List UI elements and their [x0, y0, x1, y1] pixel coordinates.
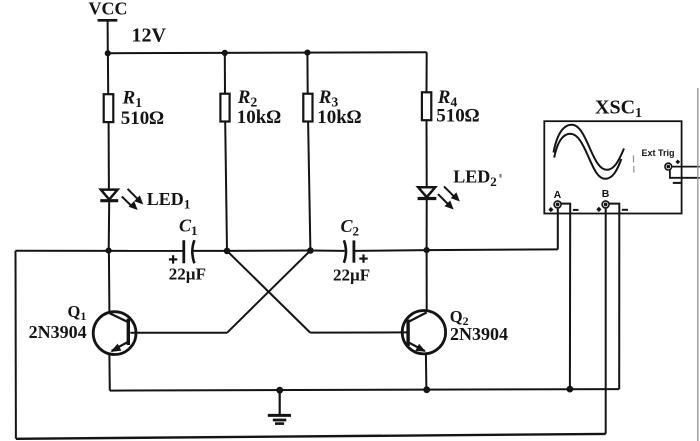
wire cross diagonal R3 to Q1 base	[227, 251, 310, 333]
resistor R4	[422, 52, 431, 187]
wire cross diagonal R2 to Q2 base	[227, 251, 310, 333]
wire Ext Trig minus out	[670, 170, 700, 178]
terminal B minus bar	[622, 209, 628, 211]
svg-text:510Ω: 510Ω	[436, 106, 480, 127]
svg-text:510Ω: 510Ω	[121, 108, 165, 129]
scope terminal A	[554, 201, 561, 208]
wire scope A plus vertical	[557, 208, 559, 250]
node top rail R3 junction	[304, 50, 310, 56]
node Q1 collector junction	[106, 248, 112, 254]
terminal A plus mark	[548, 207, 553, 212]
wire scope B minus drop	[609, 204, 619, 390]
node top rail R2 junction	[222, 50, 228, 56]
terminal A minus bar	[573, 209, 579, 211]
node ground junction	[276, 387, 283, 394]
svg-text:10kΩ: 10kΩ	[237, 107, 282, 128]
terminal Ext plus mark	[675, 160, 680, 165]
oscilloscope XSC1 box	[544, 121, 681, 213]
svg-text:A: A	[554, 189, 562, 201]
wire coupling row left segment	[15, 250, 183, 252]
wire C2 to Q2 collector node	[354, 249, 427, 252]
scope waveform trace upper	[554, 125, 625, 170]
wire between cross nodes	[227, 250, 310, 252]
LED D2 symbol	[418, 187, 437, 250]
LED1 light arrows	[122, 189, 143, 209]
wire R3 node to C2	[310, 250, 344, 252]
wire outer loop left vertical	[15, 251, 17, 439]
scope screen tick marks	[633, 156, 635, 173]
terminal Ext minus bar	[673, 182, 681, 184]
svg-text:22µF: 22µF	[169, 265, 206, 284]
LED2 light arrows	[438, 186, 459, 208]
wire outer loop bottom	[16, 434, 606, 439]
ground	[268, 390, 291, 423]
svg-text:LED1: LED1	[147, 189, 191, 212]
terminal B plus mark	[596, 207, 601, 212]
svg-text:10kΩ: 10kΩ	[317, 107, 362, 128]
resistor R2	[220, 53, 229, 251]
scope terminal B	[602, 201, 609, 208]
node R3 bottom junction	[307, 247, 314, 254]
wire top rail	[108, 52, 427, 53]
node Q2 emitter junction	[423, 386, 430, 393]
capacitor C1	[184, 240, 195, 263]
wire Ext Trig plus out	[672, 166, 700, 168]
C1 plus sign	[169, 255, 177, 263]
wire scope A plus horizontal	[427, 248, 558, 251]
svg-text:2N3904: 2N3904	[29, 322, 87, 342]
wire emitter rail	[110, 389, 619, 391]
C2 plus sign	[359, 254, 367, 262]
node R2 bottom junction	[224, 248, 231, 255]
scope terminal Ext Trig	[665, 163, 672, 170]
node scope A minus junction	[567, 386, 574, 393]
svg-text:2N3904: 2N3904	[450, 324, 508, 344]
svg-text:VCC: VCC	[89, 0, 128, 19]
svg-text:XSC1: XSC1	[595, 97, 642, 122]
resistor R3	[303, 53, 312, 251]
wire Q2 base horizontal	[310, 331, 406, 333]
svg-text:12V: 12V	[132, 25, 167, 47]
svg-text:B: B	[602, 188, 610, 200]
VCC power symbol	[98, 20, 118, 53]
stray mark	[500, 174, 502, 178]
node Q2 collector junction	[424, 247, 430, 253]
wire C1 to R2 node	[193, 250, 227, 252]
svg-text:Ext Trig: Ext Trig	[642, 148, 675, 158]
transistor Q2	[402, 250, 445, 390]
resistor R1	[104, 53, 114, 189]
wire scope B plus vertical	[605, 208, 607, 434]
transistor Q1	[93, 251, 136, 391]
wire scope A minus drop	[561, 204, 570, 390]
wire Q1 base horizontal	[130, 332, 227, 334]
scope waveform trace lower	[554, 134, 621, 179]
svg-text:LED2: LED2	[453, 167, 497, 190]
svg-text:22µF: 22µF	[333, 266, 370, 285]
scan edge artifact	[697, 88, 699, 441]
capacitor C2	[344, 240, 354, 262]
node VCC junction	[105, 50, 111, 56]
LED D1 symbol	[100, 190, 118, 251]
